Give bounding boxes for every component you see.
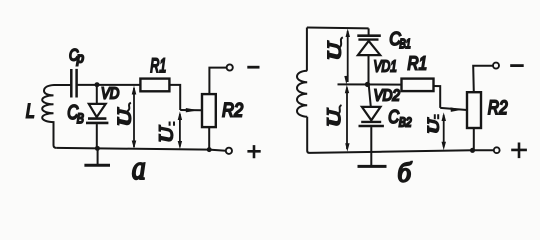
svg-text:VD: VD: [101, 86, 120, 103]
inductor coil: [297, 28, 310, 153]
wire VD branch upper: [96, 85, 98, 104]
wire bottom rail: [57, 148, 226, 151]
label U~ lower rotated: [325, 108, 345, 127]
wiper wire into R2: [440, 108, 467, 110]
varicap VD1 capacitor plate bar: [357, 34, 381, 37]
plus sign: [511, 143, 527, 159]
wire middle node to VD2: [369, 84, 371, 107]
varicap VD2 triangle: [362, 107, 381, 120]
terminal circle minus: [493, 63, 499, 69]
wire top rail: Cp right plate to R1: [77, 84, 141, 86]
wire R2 top to minus terminal: [473, 66, 493, 93]
wire R2 bottom: [208, 127, 210, 150]
arrow U~ heads: [132, 86, 137, 149]
wiper arrowhead: [186, 108, 199, 112]
wire R2 top to minus terminal: [209, 68, 226, 95]
varicap VD capacitor plate bar: [86, 122, 108, 125]
wiper wire into R2: [180, 109, 202, 111]
node junction dot top of VD: [95, 82, 100, 87]
resistor R1 box: [140, 79, 169, 92]
label U= rotated: [155, 125, 177, 143]
label U= equals mark: [170, 122, 174, 126]
svg-text:R2: R2: [222, 99, 243, 121]
varicap VD2 capacitor plate bar: [359, 125, 384, 128]
arrow U= heads: [178, 111, 182, 149]
wiper arrowhead: [451, 107, 463, 112]
wire R2 bottom: [473, 128, 475, 150]
svg-text:B: B: [77, 110, 84, 126]
resistor R1 box: [402, 79, 434, 92]
varicap VD triangle: [89, 104, 106, 117]
potentiometer R2 box: [202, 94, 216, 127]
terminal circle plus: [226, 148, 232, 154]
label U~ lower tilde mark: [338, 105, 342, 114]
wire VD branch lower: [96, 124, 98, 148]
terminal circle minus: [227, 64, 233, 70]
varicap VD cathode bar: [88, 117, 106, 120]
varicap VD1 triangle: [358, 41, 380, 55]
svg-text:U: U: [325, 108, 345, 127]
svg-text:L: L: [26, 101, 35, 123]
node junction dot bottom of VD: [95, 146, 100, 151]
svg-text:R1: R1: [408, 52, 428, 73]
label U~ tilde mark: [127, 103, 130, 111]
node junction dot R2 bottom: [207, 147, 212, 152]
svg-text:а: а: [132, 150, 146, 187]
wire middle node horizontal: [338, 83, 402, 85]
wire top rail: [307, 27, 369, 30]
svg-text:R2: R2: [488, 98, 508, 119]
arrow U= line: [179, 114, 181, 147]
minus sign: [247, 66, 259, 69]
svg-text:U: U: [115, 107, 135, 126]
ground bar: [84, 164, 110, 167]
inductor L coil with top entry: [42, 85, 71, 148]
svg-text:C: C: [388, 106, 399, 127]
arrow U~ upper line: [347, 31, 349, 82]
capacitor Cp plates: [71, 69, 76, 98]
varicap VD1 cathode bar: [358, 38, 378, 40]
svg-text:VD2: VD2: [374, 88, 400, 105]
label U~ upper rotated: [325, 41, 346, 60]
wire bottom rail: [310, 150, 494, 153]
label U~ rotated: [115, 107, 135, 126]
potentiometer R2 box: [467, 92, 481, 128]
arrow U~ lower heads: [345, 85, 350, 152]
arrow U= heads: [442, 112, 447, 150]
arrow U~ lower line: [346, 88, 348, 150]
svg-text:U: U: [325, 41, 346, 60]
node junction dot middle: [365, 82, 370, 87]
wire R1 to corner down: [169, 85, 180, 110]
svg-text:б: б: [398, 158, 413, 188]
node junction dot R2 bottom: [470, 148, 475, 153]
wire VD1 to middle node: [368, 55, 370, 84]
svg-text:p: p: [76, 50, 84, 65]
arrow U= line: [443, 115, 445, 147]
svg-text:B1: B1: [399, 36, 411, 51]
varicap VD2 cathode bar: [361, 121, 381, 123]
label U= equals mark: [435, 114, 438, 119]
svg-text:U: U: [155, 125, 177, 143]
ground stub: [370, 152, 372, 166]
minus sign: [510, 64, 524, 67]
ground stub: [97, 148, 99, 165]
wire R1 to corner down: [434, 86, 441, 108]
arrow U~ line: [133, 88, 135, 147]
svg-text:R1: R1: [150, 56, 166, 77]
label U~ upper tilde mark: [339, 37, 343, 48]
svg-text:B2: B2: [399, 115, 412, 130]
arrow U~ upper heads: [344, 29, 350, 85]
plus sign: [247, 145, 260, 158]
wire VD1 top stub: [368, 28, 370, 35]
terminal circle plus: [494, 147, 500, 153]
label U= rotated: [425, 117, 442, 133]
ground bar: [358, 165, 387, 168]
wire VD2 to bottom rail: [370, 127, 372, 152]
svg-text:VD1: VD1: [374, 58, 398, 75]
svg-text:U: U: [425, 117, 442, 133]
